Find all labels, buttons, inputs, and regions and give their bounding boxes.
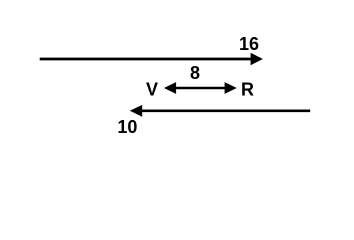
svg-text:R: R [241, 79, 254, 99]
vector arrow bottom (length 10, pointing left) [130, 105, 310, 117]
svg-text:10: 10 [117, 117, 137, 137]
resultant double arrow (length 8) [164, 82, 237, 94]
svg-text:8: 8 [190, 63, 200, 83]
vector arrow top (length 16, pointing right) [40, 53, 263, 65]
svg-text:16: 16 [239, 34, 259, 54]
svg-text:V: V [146, 79, 158, 99]
